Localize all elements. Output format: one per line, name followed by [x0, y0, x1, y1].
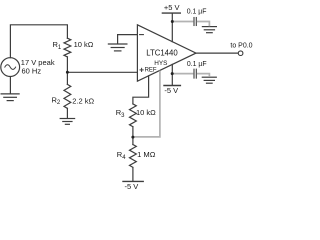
wire R2 bottom to ground: [66, 108, 68, 118]
resistor R3 10k zigzag: [129, 104, 136, 127]
svg-text:+5 V: +5 V: [164, 3, 180, 12]
capacitor C2 plates: [194, 69, 196, 78]
junction dot at V+: [171, 20, 174, 23]
wire R4 bottom to -5V: [132, 168, 134, 182]
V- pin wire: [171, 64, 173, 85]
ground at -input: [108, 44, 127, 51]
ground at C1: [202, 27, 216, 33]
ground under source: [1, 94, 19, 101]
svg-text:R1: R1: [53, 40, 62, 51]
svg-text:-5 V: -5 V: [164, 86, 178, 95]
svg-text:60 Hz: 60 Hz: [22, 66, 42, 75]
svg-text:-5 V: -5 V: [125, 182, 139, 191]
output terminal circle: [238, 51, 243, 56]
svg-text:10 kΩ: 10 kΩ: [74, 40, 94, 49]
gray wire V- node to C2: [173, 73, 193, 75]
+5V supply bar: [162, 12, 180, 14]
wire node to +input: [67, 71, 137, 73]
resistor R2 2.2k zigzag: [64, 84, 71, 108]
svg-text:0.1 µF: 0.1 µF: [187, 9, 207, 16]
svg-text:R4: R4: [117, 150, 126, 161]
junction dot at R3/R4: [131, 136, 134, 139]
svg-text:2.2 kΩ: 2.2 kΩ: [72, 97, 94, 106]
output wire to terminal: [196, 52, 238, 54]
svg-text:10 kΩ: 10 kΩ: [136, 108, 156, 117]
svg-text:LTC1440: LTC1440: [146, 49, 178, 58]
junction dot at V-: [171, 72, 174, 75]
V+ pin wire: [171, 14, 173, 42]
resistor R1 10k zigzag: [64, 38, 71, 57]
svg-text:to P0.0: to P0.0: [230, 42, 252, 49]
gray HYS feedback wire: [134, 22, 209, 137]
svg-text:0.1 µF: 0.1 µF: [187, 61, 207, 68]
svg-text:R3: R3: [116, 108, 125, 119]
-5V supply bar bottom: [123, 180, 143, 182]
gray wire C1 to ground: [197, 22, 210, 27]
plus input marker: [140, 68, 143, 71]
ground at C2: [202, 77, 216, 83]
op-amp U1 LTC1440 triangle: [137, 25, 196, 81]
gray wire V+ node to C1: [173, 21, 193, 23]
resistor R4 1M zigzag: [129, 145, 136, 168]
wire source bottom to ground: [9, 77, 11, 94]
svg-text:REF: REF: [145, 68, 157, 74]
wire -input to ground: [118, 35, 138, 44]
svg-text:1 MΩ: 1 MΩ: [137, 150, 156, 159]
AC source sine symbol: [5, 65, 16, 70]
junction dot at R1/R2 node: [66, 71, 69, 74]
REF pin wire to R3: [133, 76, 149, 104]
capacitor C1 plates: [194, 18, 196, 26]
wire top rail from source to R1: [10, 25, 67, 58]
svg-text:HYS: HYS: [154, 60, 167, 67]
minus input tick: [140, 34, 144, 36]
wire R3 bottom through junction to R4 top: [132, 127, 134, 145]
ground under R2: [60, 119, 74, 125]
gray wire C2 to ground: [197, 74, 210, 77]
svg-text:R2: R2: [52, 95, 61, 106]
-5V supply bar mid: [164, 85, 180, 87]
AC source V1 circle: [1, 58, 20, 77]
wire R1 bottom through node to R2 top: [66, 57, 68, 85]
